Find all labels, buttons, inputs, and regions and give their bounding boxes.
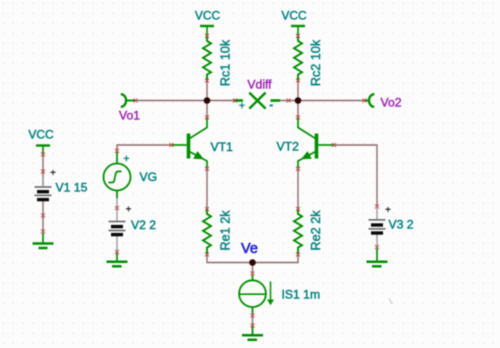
- label V3 2: [389, 218, 414, 232]
- svg-text:VT2: VT2: [277, 140, 300, 154]
- connector Vo2: [365, 94, 375, 107]
- power VCC symbol above Rc1: [195, 9, 221, 36]
- label VT1: [211, 140, 234, 154]
- svg-text:VCC: VCC: [281, 9, 307, 23]
- plus mark V2: [126, 205, 132, 216]
- pin marker V2 top: [115, 206, 119, 210]
- source IS1 current source: [239, 275, 274, 313]
- connector Vo1: [121, 94, 135, 107]
- resistor Re1: [203, 209, 211, 254]
- pin marker VT1 emitter: [205, 167, 209, 171]
- pin marker V2 bottom: [115, 250, 119, 254]
- pin marker VT2 base: [332, 143, 336, 147]
- wire bottom rail Re1/Re2 to node Ve: [207, 254, 298, 275]
- pin marker IS1 bottom: [251, 314, 255, 318]
- svg-text:+: +: [50, 168, 56, 179]
- label V2 2: [131, 218, 156, 232]
- wire Rc2 column: [297, 80, 299, 119]
- voltage meter Vdiff (X symbol): [234, 93, 281, 109]
- value label Rc2 10k: [309, 39, 323, 86]
- plus mark V1: [50, 168, 56, 179]
- pin marker Re2 top: [296, 207, 300, 211]
- wire top rail Vo1 to Vo2: [135, 100, 365, 102]
- pin marker Re1 bottom: [205, 253, 209, 257]
- pin marker VT2 emitter: [296, 167, 300, 171]
- pin marker VT2 collector: [296, 115, 300, 119]
- source V1 battery: [35, 177, 52, 200]
- svg-text:VT1: VT1: [211, 140, 234, 154]
- label Vo1: [119, 109, 140, 123]
- pin marker IS1 top: [251, 272, 255, 276]
- stray mark: [390, 299, 393, 304]
- value label Rc1 10k: [219, 39, 233, 86]
- pin marker Rc1 top: [205, 34, 209, 38]
- wire Rc1 column: [206, 80, 208, 119]
- svg-text:Rc1 10k: Rc1 10k: [219, 39, 233, 86]
- plus mark V3: [385, 205, 391, 216]
- svg-text:IS1 1m: IS1 1m: [282, 288, 321, 302]
- svg-text:+: +: [239, 100, 245, 112]
- pin marker Rc1 bottom: [205, 79, 209, 83]
- label VT2: [277, 140, 300, 154]
- ground below V3: [367, 249, 388, 267]
- transistor VT1: [172, 119, 208, 168]
- pin marker V1 plus: [41, 170, 45, 174]
- wire V1 column: [42, 153, 44, 232]
- svg-text:Re2 2k: Re2 2k: [309, 210, 323, 251]
- node junction at Rc1/Vo1: [204, 97, 211, 104]
- svg-text:VCC: VCC: [195, 9, 221, 23]
- power VCC symbol above V1: [28, 128, 54, 155]
- label Vo2: [381, 96, 402, 110]
- svg-text:+: +: [385, 205, 391, 216]
- power VCC symbol above Rc2: [281, 9, 307, 36]
- plus mark VG: [123, 153, 129, 165]
- pin marker Vo2: [363, 99, 367, 103]
- label Vdiff: [247, 77, 272, 91]
- svg-text:Ve: Ve: [241, 241, 258, 257]
- wire VT2 emitter to Re2: [297, 168, 299, 211]
- resistor Rc1: [203, 36, 211, 81]
- svg-text:Rc2 10k: Rc2 10k: [309, 39, 323, 86]
- svg-text:V1 15: V1 15: [56, 181, 88, 195]
- pin marker Re2 bottom: [296, 253, 300, 257]
- svg-text:+: +: [126, 205, 132, 216]
- svg-text:VCC: VCC: [28, 128, 54, 142]
- pin marker Re1 top: [205, 207, 209, 211]
- svg-text:+: +: [123, 153, 129, 165]
- label VG: [140, 170, 158, 184]
- resistor Re2: [294, 209, 302, 254]
- ground below V2: [107, 253, 128, 266]
- source V2 battery: [109, 222, 126, 235]
- pin marker V1 bottom: [41, 214, 45, 218]
- svg-text:Re1 2k: Re1 2k: [219, 210, 233, 251]
- pin marker V3 bottom: [375, 245, 379, 249]
- label Ve: [241, 241, 258, 257]
- pin marker V1 top: [41, 153, 45, 157]
- pin marker VT1 collector: [205, 115, 209, 119]
- svg-text:V3 2: V3 2: [389, 218, 414, 232]
- node junction at Rc2/Vo2: [295, 97, 302, 104]
- wire V3 to ground: [376, 234, 378, 248]
- minus mark Vdiff: [270, 105, 273, 107]
- svg-text:V2 2: V2 2: [131, 218, 156, 232]
- node junction Ve: [249, 259, 256, 266]
- pin marker Rc2 top: [296, 34, 300, 38]
- wire VG to VT1 base: [117, 145, 172, 150]
- pin marker Vdiff right: [287, 99, 291, 103]
- svg-text:VG: VG: [140, 170, 158, 184]
- pin marker V3 top: [375, 205, 379, 209]
- wire VT2 base to V3: [334, 145, 377, 206]
- transistor VT2: [298, 119, 334, 168]
- pin marker VT1 base: [170, 143, 174, 147]
- pin marker V1 ground: [41, 230, 45, 234]
- pin marker Vo1: [134, 99, 138, 103]
- pin marker Rc2 bottom: [296, 79, 300, 83]
- value label Re1 2k: [219, 210, 233, 251]
- ground below V1: [33, 233, 54, 248]
- wire V2 to ground: [116, 235, 118, 253]
- source VG (voltage generator): [104, 152, 131, 198]
- ground below IS1: [242, 326, 263, 340]
- wire VT1 emitter to Re1: [206, 168, 208, 211]
- wire VG to V2: [116, 191, 118, 221]
- label V1 15: [56, 181, 88, 195]
- plus mark Vdiff: [239, 100, 245, 112]
- svg-text:Vo2: Vo2: [381, 96, 402, 110]
- svg-text:Vo1: Vo1: [119, 109, 140, 123]
- resistor Rc2: [294, 36, 302, 81]
- pin marker IS1 ground: [251, 324, 255, 328]
- label IS1 1m: [282, 288, 321, 302]
- value label Re2 2k: [309, 210, 323, 251]
- pin marker VG top: [115, 149, 119, 153]
- wire IS1 to ground: [252, 307, 254, 334]
- svg-text:Vdiff: Vdiff: [247, 77, 272, 91]
- source V3 battery: [369, 208, 386, 233]
- pin marker Vdiff left: [233, 99, 237, 103]
